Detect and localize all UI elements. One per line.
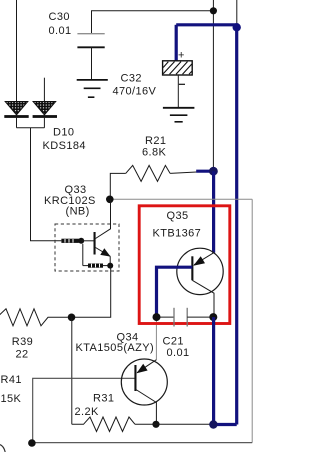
Q33 emitter with arrow xyxy=(96,248,111,266)
wire right diode anode xyxy=(43,78,45,102)
resistor R39 xyxy=(0,309,68,326)
Q34 emitter diagonal with arrow to bar xyxy=(137,360,157,374)
capacitor C32 electrolytic hatched plate xyxy=(163,61,193,108)
blue junction dot top right xyxy=(233,23,241,31)
wire thin vertical x=213 from top to R21 node xyxy=(212,0,214,171)
svg-text:C32: C32 xyxy=(121,73,142,85)
Q34 collector xyxy=(136,390,157,425)
wire R21 left lead down to node xyxy=(110,173,125,199)
gray net from node (111,199) right and around xyxy=(109,198,252,200)
Q35 base bar xyxy=(191,256,193,280)
blue wire bottom jog xyxy=(213,423,236,426)
wire R39 node down to R31 xyxy=(71,317,73,424)
junction dot bottom left xyxy=(28,439,36,447)
svg-text:+: + xyxy=(178,50,185,62)
Q34 base bar xyxy=(134,365,136,391)
capacitor C30 xyxy=(77,34,104,80)
svg-text:470/16V: 470/16V xyxy=(113,86,157,98)
blue wire Q35 collector node down xyxy=(212,317,215,424)
Q34 emitter wire from C21 node xyxy=(155,317,157,360)
diode D10 right element xyxy=(33,102,57,128)
svg-text:R21: R21 xyxy=(145,135,166,147)
junction dot Q33 internal base node xyxy=(78,238,84,244)
wire left diode anode from top edge xyxy=(16,0,18,102)
svg-text:6.8K: 6.8K xyxy=(142,147,166,159)
junction dot R39 node xyxy=(68,314,76,322)
Q35 collector xyxy=(192,280,214,317)
blue junction dot R21 node xyxy=(209,167,218,176)
red highlight box around Q35 xyxy=(139,206,230,324)
svg-text:C30: C30 xyxy=(49,11,70,23)
svg-text:R31: R31 xyxy=(93,393,114,405)
wire top horizontal C30 to node at x=213 xyxy=(92,11,214,34)
svg-text:22: 22 xyxy=(16,349,29,361)
blue stub down to C32 plus xyxy=(175,25,178,61)
svg-text:KTA1505(AZY): KTA1505(AZY) xyxy=(76,342,155,354)
blue net vertical right side xyxy=(235,27,238,425)
svg-text:C21: C21 xyxy=(163,336,184,348)
Q35 emitter diagonal with arrow xyxy=(193,253,213,266)
blue net horizontal top xyxy=(176,23,238,26)
wire R41 net corner to Q34 base xyxy=(33,378,136,442)
internal resistor inside Q33 (base-emitter) xyxy=(83,244,110,268)
svg-text:(NB): (NB) xyxy=(66,205,90,217)
diode D10 left element xyxy=(4,102,28,128)
junction dot Q34 collector node xyxy=(152,421,159,428)
wire base lead to Q33 bar xyxy=(81,240,93,242)
svg-text:KDS184: KDS184 xyxy=(43,140,86,152)
ground below C30 xyxy=(77,80,108,97)
ground below C32 xyxy=(163,108,195,122)
wire joining diode cathodes xyxy=(17,127,45,129)
wire R21 right lead xyxy=(170,172,196,173)
wire Q33 emitter down to R39 node xyxy=(72,266,111,318)
svg-text:0.01: 0.01 xyxy=(167,347,190,359)
blue wire down to Q35 emitter xyxy=(212,171,215,253)
dashed box around Q33 xyxy=(55,224,119,271)
svg-text:KTB1367: KTB1367 xyxy=(153,228,202,240)
blue stub at R21 right xyxy=(196,170,213,173)
svg-text:R39: R39 xyxy=(12,336,33,348)
junction dot C21 right node xyxy=(209,313,217,321)
svg-text:Q35: Q35 xyxy=(167,210,189,222)
capacitor C21 xyxy=(157,308,214,327)
gray net right vertical xyxy=(251,199,253,442)
partial transistor circle bottom left corner xyxy=(0,445,5,452)
Q33 collector xyxy=(96,199,111,238)
svg-text:R41: R41 xyxy=(1,374,22,386)
internal resistor R inside Q33 (base) xyxy=(61,239,79,243)
wire thin vertical x=237 top stub xyxy=(236,0,238,27)
junction node top at (213,11) xyxy=(210,7,217,14)
svg-text:D10: D10 xyxy=(53,127,74,139)
gray net bottom horizontal xyxy=(32,442,253,444)
resistor R21 xyxy=(126,165,170,181)
junction dot Q33 emitter node xyxy=(107,263,113,269)
blue junction dot bottom xyxy=(209,420,217,428)
junction dot R21/Q33 collector node xyxy=(106,196,114,204)
transistor Q34 circle xyxy=(121,359,167,405)
wire from diodes down to Q33 base xyxy=(31,128,62,241)
junction dot C21 left node xyxy=(153,313,161,321)
svg-text:2.2K: 2.2K xyxy=(75,406,99,418)
label minus sign xyxy=(179,83,185,85)
transistor Q35 circle xyxy=(177,248,223,294)
wire R31 to bottom node xyxy=(135,423,213,425)
svg-text:15K: 15K xyxy=(1,393,22,405)
blue wire Q35 base to C21 left node xyxy=(157,267,193,317)
transistor Q33 base bar xyxy=(94,232,96,255)
svg-text:0.01: 0.01 xyxy=(49,25,72,37)
resistor R31 xyxy=(72,417,135,432)
